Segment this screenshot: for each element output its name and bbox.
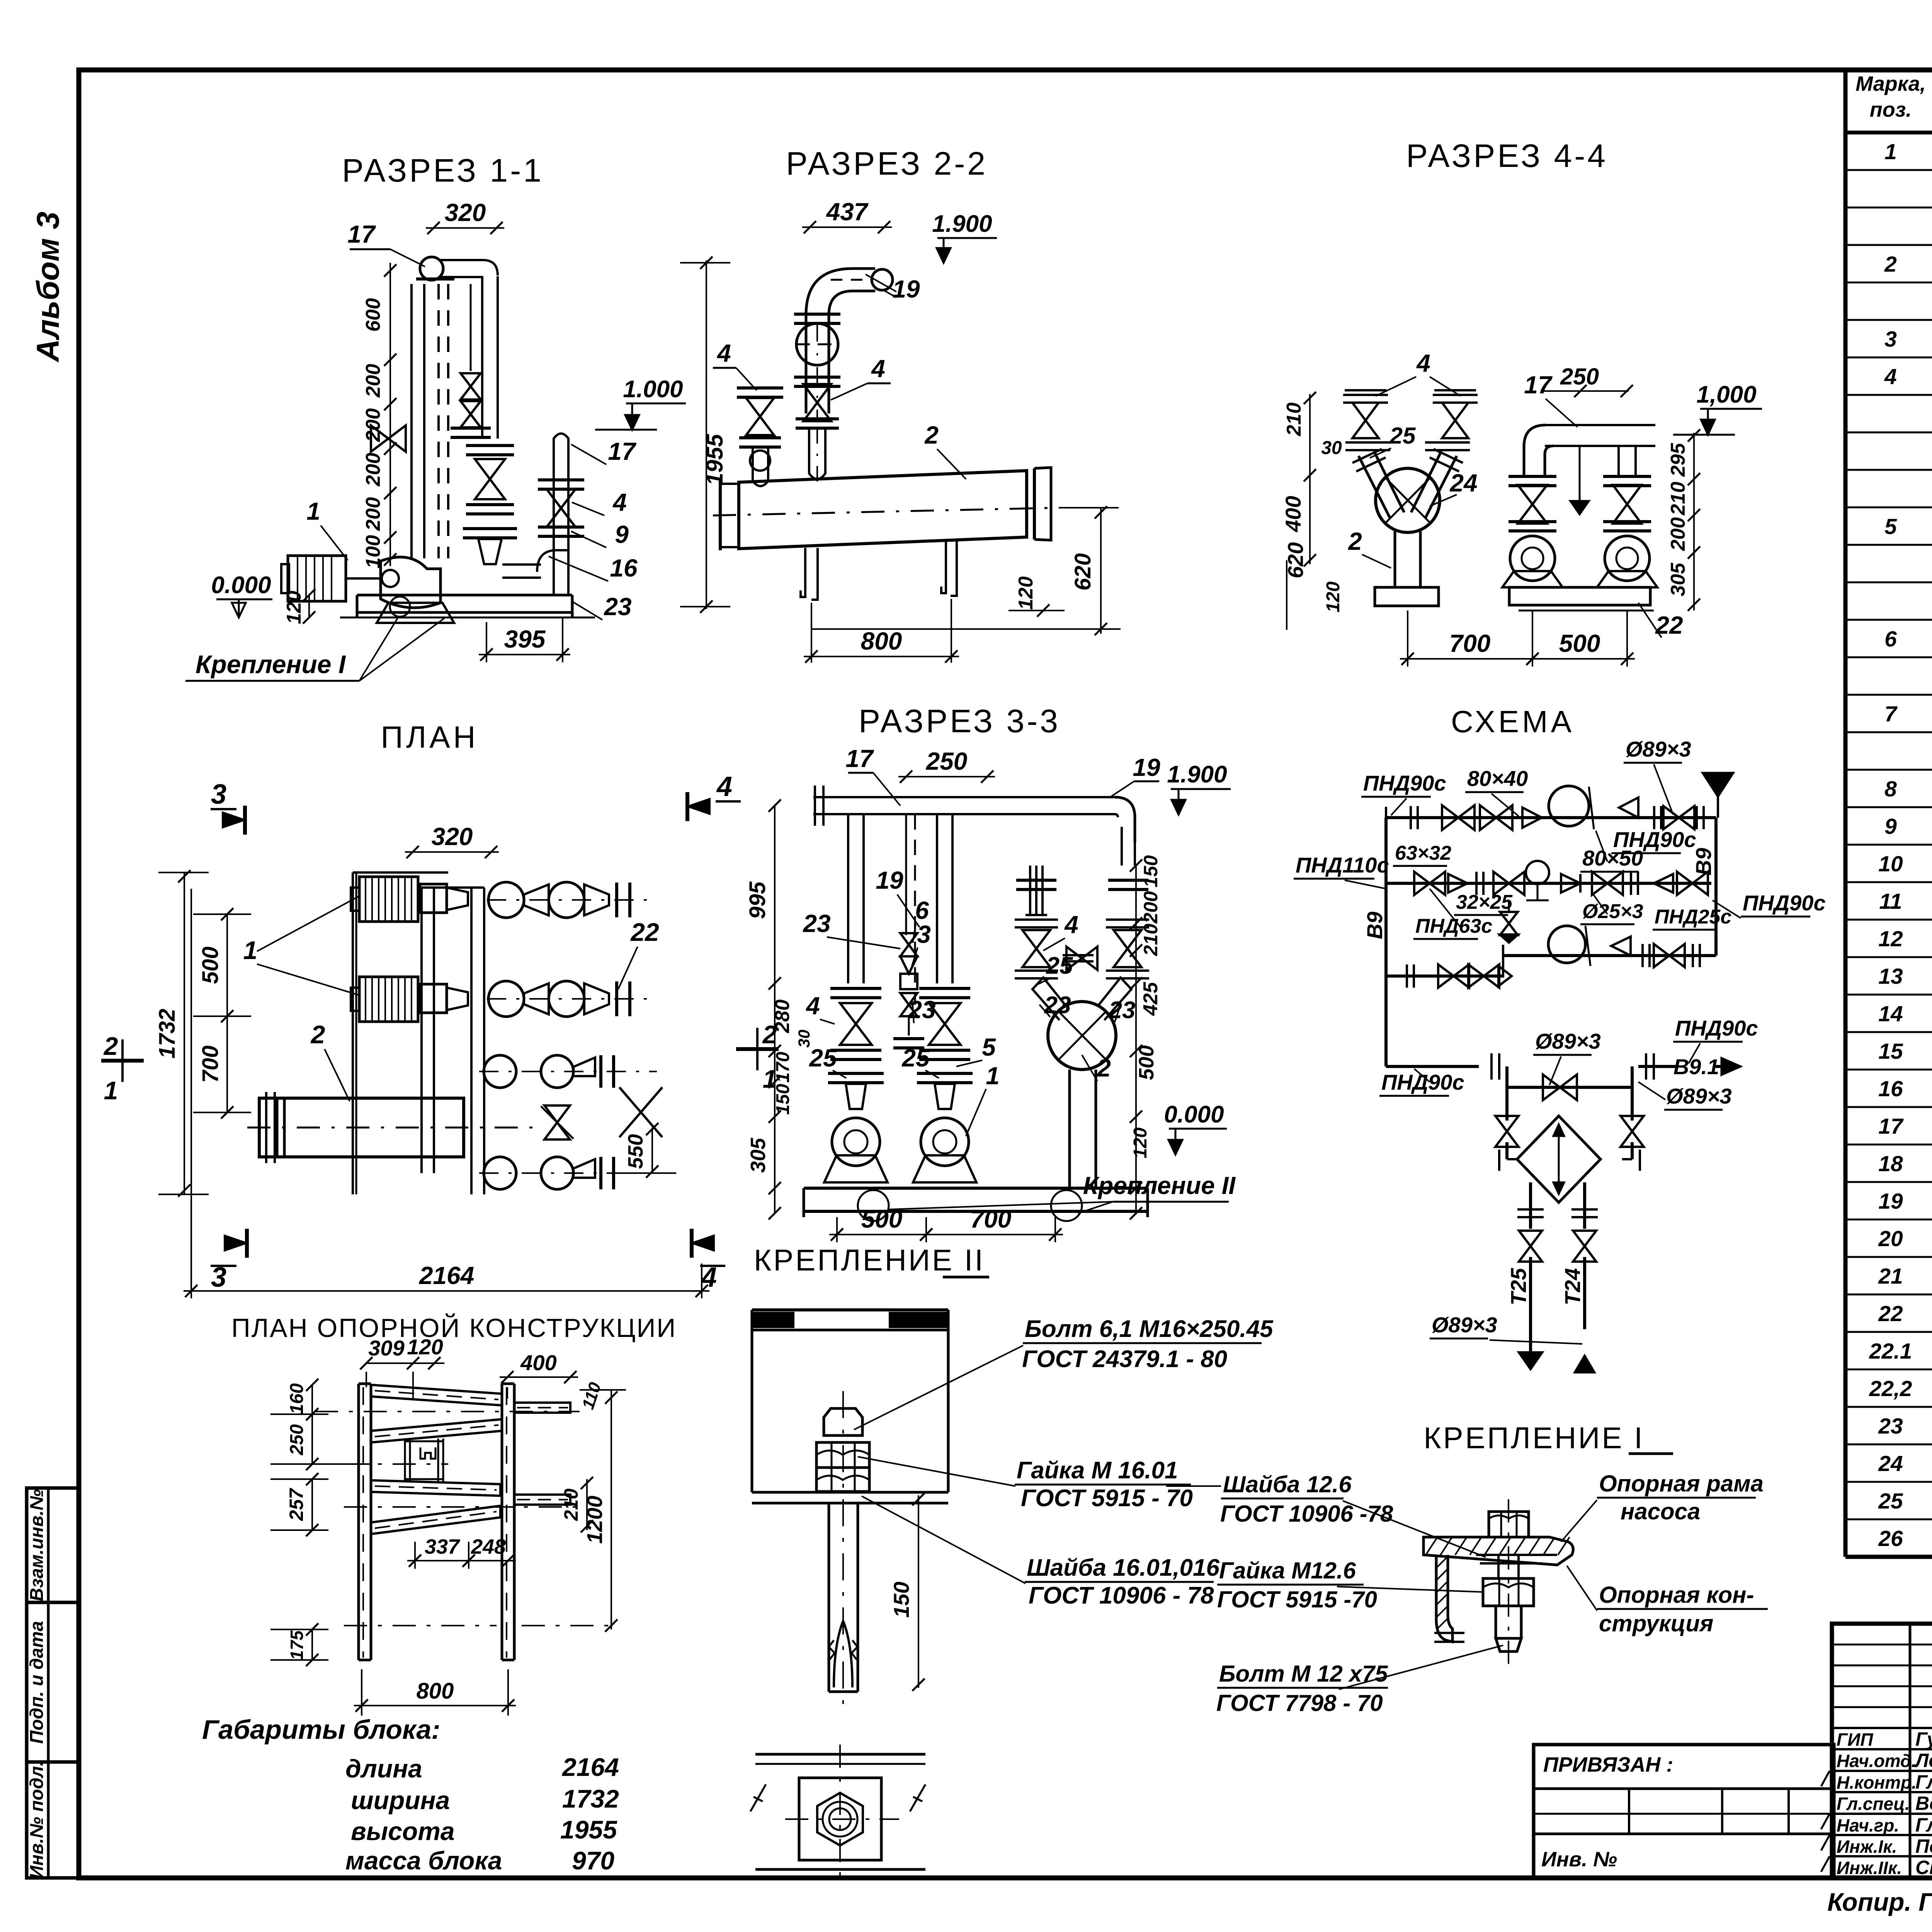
svg-text:РАЗРЕЗ 2-2: РАЗРЕЗ 2-2 (786, 145, 988, 182)
svg-text:1: 1 (306, 497, 320, 525)
svg-text:1.900: 1.900 (1167, 761, 1227, 788)
svg-text:1,000: 1,000 (1696, 381, 1756, 408)
svg-text:В9: В9 (1362, 912, 1387, 939)
svg-text:4: 4 (612, 488, 627, 516)
svg-text:150: 150 (889, 1582, 913, 1617)
svg-text:32×25: 32×25 (1456, 891, 1513, 913)
svg-text:1: 1 (986, 1062, 1000, 1090)
svg-text:500: 500 (1135, 1045, 1158, 1080)
svg-text:257: 257 (286, 1488, 307, 1521)
svg-text:ПРИВЯЗАН :: ПРИВЯЗАН : (1543, 1753, 1673, 1776)
left margin boxes (27, 1488, 79, 1602)
svg-text:3: 3 (1884, 327, 1897, 352)
pump unit P1 (288, 556, 346, 601)
svg-text:210: 210 (1283, 403, 1305, 437)
schema lower manifold (1386, 1065, 1479, 1068)
svg-text:425: 425 (1139, 982, 1162, 1016)
svg-text:В9: В9 (1691, 848, 1716, 876)
svg-text:Ø25×3: Ø25×3 (1582, 900, 1643, 923)
beam (752, 1308, 948, 1311)
svg-text:210: 210 (560, 1488, 582, 1521)
support dims (366, 1362, 444, 1364)
svg-text:17: 17 (1524, 371, 1553, 399)
support middle connector (404, 1439, 406, 1482)
section mark 2-1 right (736, 1047, 779, 1051)
svg-text:210: 210 (1140, 923, 1162, 956)
svg-text:25: 25 (901, 1044, 930, 1072)
svg-text:ПНД90с: ПНД90с (1743, 891, 1826, 915)
svg-text:620: 620 (1070, 553, 1095, 591)
svg-text:Опорная кон-: Опорная кон- (1599, 1582, 1754, 1608)
svg-text:5: 5 (1884, 514, 1897, 539)
svg-text:Гладикова: Гладикова (1915, 1771, 1932, 1793)
svg-text:Смирнова: Смирнова (1915, 1857, 1932, 1878)
svg-text:700: 700 (1449, 629, 1491, 657)
svg-text:1.000: 1.000 (623, 376, 683, 403)
svg-text:500: 500 (198, 947, 223, 984)
svg-text:25: 25 (809, 1044, 837, 1072)
svg-text:120: 120 (1323, 582, 1344, 612)
svg-text:600: 600 (362, 298, 384, 332)
plan pump unit (359, 877, 418, 922)
svg-text:15: 15 (1878, 1039, 1903, 1064)
s3 risers (847, 814, 849, 983)
s3 tank (1048, 1002, 1116, 1070)
svg-text:19: 19 (1878, 1189, 1903, 1214)
svg-text:3: 3 (211, 779, 226, 810)
svg-text:РАЗРЕЗ 3-3: РАЗРЕЗ 3-3 (859, 703, 1060, 739)
svg-text:2: 2 (1097, 1054, 1111, 1082)
svg-text:1732: 1732 (562, 1784, 619, 1813)
svg-text:23: 23 (803, 910, 830, 937)
svg-text:Болт 6,1 М16×250.45: Болт 6,1 М16×250.45 (1025, 1316, 1274, 1342)
heat exchanger vessel (739, 471, 1027, 549)
svg-text:995: 995 (745, 881, 770, 919)
svg-text:20: 20 (1878, 1226, 1903, 1251)
svg-text:7: 7 (1884, 702, 1898, 726)
svg-text:1200: 1200 (582, 1496, 607, 1544)
svg-text:2164: 2164 (419, 1262, 474, 1289)
svg-text:25: 25 (1878, 1489, 1903, 1514)
svg-text:620: 620 (1283, 542, 1308, 578)
section2 legs (804, 548, 806, 585)
svg-text:160: 160 (287, 1383, 307, 1414)
support columns (357, 1384, 360, 1660)
kr1 bolt (1489, 1512, 1529, 1537)
svg-text:ПНД110с: ПНД110с (1296, 853, 1389, 877)
svg-text:Гл.спец.: Гл.спец. (1837, 1794, 1910, 1814)
svg-text:248: 248 (471, 1535, 506, 1558)
svg-text:4: 4 (1884, 364, 1897, 389)
svg-text:320: 320 (432, 823, 473, 850)
svg-text:63×32: 63×32 (1395, 842, 1451, 864)
svg-text:500: 500 (861, 1205, 903, 1233)
svg-text:24: 24 (1449, 469, 1477, 497)
svg-text:0.000: 0.000 (211, 572, 271, 599)
svg-text:Шайба 12.6: Шайба 12.6 (1223, 1471, 1352, 1497)
svg-text:Шайба 16.01,016: Шайба 16.01,016 (1027, 1554, 1219, 1581)
svg-text:320: 320 (445, 199, 486, 226)
s4 pipe arch (1545, 424, 1655, 426)
svg-text:305: 305 (1667, 563, 1689, 597)
svg-text:ПЛАН: ПЛАН (381, 720, 478, 754)
pump (1510, 536, 1555, 581)
svg-text:ГОСТ 7798 - 70: ГОСТ 7798 - 70 (1216, 1690, 1383, 1716)
svg-text:23: 23 (604, 593, 631, 621)
plan valve train (488, 882, 524, 918)
svg-text:0.000: 0.000 (1164, 1101, 1224, 1128)
svg-text:Т25: Т25 (1506, 1268, 1531, 1305)
section mark 4 bottom (690, 1229, 694, 1258)
svg-text:ГОСТ 24379.1 - 80: ГОСТ 24379.1 - 80 (1022, 1346, 1227, 1372)
svg-text:В9.1: В9.1 (1673, 1054, 1719, 1079)
support beams (371, 1385, 502, 1405)
svg-text:250: 250 (1560, 364, 1599, 389)
svg-text:80×40: 80×40 (1467, 766, 1528, 791)
svg-text:150: 150 (1140, 855, 1162, 888)
svg-text:высота: высота (351, 1817, 455, 1845)
svg-text:19: 19 (1133, 753, 1160, 781)
svg-text:337: 337 (425, 1535, 461, 1558)
svg-text:1: 1 (104, 1076, 118, 1105)
svg-text:16: 16 (610, 554, 638, 582)
svg-text:4: 4 (716, 771, 732, 802)
svg-text:9: 9 (1884, 814, 1897, 839)
support stubs (514, 1403, 570, 1413)
svg-text:Крепление II: Крепление II (1083, 1172, 1236, 1199)
svg-text:120: 120 (407, 1335, 443, 1359)
svg-text:12: 12 (1878, 927, 1903, 951)
svg-text:11: 11 (1879, 889, 1902, 914)
svg-text:Подп. и дата: Подп. и дата (27, 1621, 47, 1744)
kr1 bracket (1436, 1555, 1452, 1642)
svg-text:4: 4 (871, 355, 885, 383)
section2 left valve (737, 386, 783, 389)
svg-text:400: 400 (520, 1350, 556, 1375)
svg-text:5: 5 (982, 1033, 996, 1061)
schema top right arrowdrop (1702, 773, 1733, 797)
svg-text:200: 200 (362, 364, 384, 398)
svg-text:1: 1 (243, 936, 258, 964)
svg-text:400: 400 (1281, 496, 1305, 532)
svg-text:170: 170 (773, 1052, 793, 1083)
svg-text:14: 14 (1878, 1002, 1903, 1026)
svg-text:437: 437 (826, 198, 869, 226)
bolt head and nuts (824, 1408, 862, 1435)
svg-text:1.900: 1.900 (932, 211, 992, 237)
svg-text:395: 395 (504, 625, 546, 653)
svg-text:80×50: 80×50 (1582, 846, 1643, 870)
svg-text:Нач.отд.: Нач.отд. (1837, 1751, 1916, 1771)
svg-text:Крепление I: Крепление I (196, 650, 346, 679)
schema line4 (1386, 975, 1503, 978)
privyazan block (1534, 1745, 1834, 1878)
svg-text:23: 23 (1109, 997, 1136, 1024)
svg-text:Ø89×3: Ø89×3 (1535, 1029, 1601, 1053)
svg-text:6: 6 (1884, 627, 1897, 651)
svg-text:Нач.гр.: Нач.гр. (1837, 1815, 1899, 1835)
plan lower riser pair (484, 1157, 516, 1189)
svg-text:Инж.IIк.: Инж.IIк. (1837, 1858, 1902, 1878)
svg-text:ПНД90с: ПНД90с (1675, 1016, 1758, 1040)
svg-text:4: 4 (716, 339, 731, 367)
svg-text:800: 800 (861, 627, 902, 655)
anchor rod (828, 1503, 830, 1692)
section mark 3 bottom (245, 1229, 249, 1258)
svg-text:120: 120 (1015, 577, 1037, 610)
section1 top pipe (420, 257, 443, 280)
plan heat exchanger (259, 1098, 464, 1157)
svg-text:200: 200 (362, 453, 384, 487)
schema line2 (1384, 818, 1388, 1066)
s3 pump (921, 1118, 969, 1166)
schema filter (1505, 1087, 1509, 1121)
svg-text:26: 26 (1878, 1526, 1903, 1551)
svg-text:РАЗРЕЗ 4-4: РАЗРЕЗ 4-4 (1406, 138, 1608, 174)
schema top line (1386, 816, 1716, 819)
svg-text:16: 16 (1878, 1077, 1903, 1101)
svg-text:Гладикова: Гладикова (1915, 1814, 1932, 1836)
svg-text:Гайка М12.6: Гайка М12.6 (1219, 1558, 1356, 1583)
svg-text:КРЕПЛЕНИЕ I: КРЕПЛЕНИЕ I (1423, 1421, 1645, 1455)
svg-text:ПЛАН ОПОРНОЙ КОНСТРУКЦИИ: ПЛАН ОПОРНОЙ КОНСТРУКЦИИ (231, 1313, 677, 1343)
section mark 4 top (685, 792, 689, 821)
plan pump unit (359, 977, 418, 1022)
svg-text:ПНД90с: ПНД90с (1381, 1070, 1464, 1094)
svg-text:800: 800 (417, 1679, 454, 1704)
title block (1832, 1624, 1932, 1878)
svg-text:СХЕМА: СХЕМА (1451, 704, 1575, 739)
svg-text:Н.контр.: Н.контр. (1837, 1772, 1917, 1793)
svg-text:Гайка М 16.01: Гайка М 16.01 (1017, 1457, 1178, 1484)
svg-text:17: 17 (1878, 1114, 1904, 1139)
section1 mid valves (470, 284, 472, 371)
section mark 3 top (243, 806, 247, 835)
bolt plan (755, 1753, 925, 1756)
svg-text:13: 13 (1878, 964, 1903, 989)
svg-text:1955: 1955 (560, 1815, 617, 1844)
svg-text:ПНД90с: ПНД90с (1363, 771, 1446, 795)
svg-text:4: 4 (805, 992, 820, 1020)
section1 right riser (553, 460, 555, 594)
svg-text:2: 2 (310, 1020, 325, 1049)
svg-text:насоса: насоса (1621, 1498, 1700, 1524)
svg-text:РАЗРЕЗ 1-1: РАЗРЕЗ 1-1 (342, 152, 544, 189)
svg-text:Волкова: Волкова (1915, 1793, 1932, 1814)
svg-text:550: 550 (624, 1134, 647, 1169)
svg-text:Инв. №: Инв. № (1541, 1848, 1617, 1871)
section1 column (416, 277, 454, 281)
svg-text:305: 305 (747, 1138, 770, 1173)
svg-text:10: 10 (1878, 852, 1903, 876)
svg-text:1955: 1955 (702, 434, 728, 486)
svg-text:700: 700 (970, 1205, 1012, 1233)
svg-text:2164: 2164 (561, 1753, 619, 1781)
svg-text:длина: длина (345, 1754, 422, 1783)
svg-text:700: 700 (198, 1046, 223, 1083)
svg-text:22,2: 22,2 (1869, 1376, 1912, 1401)
schema line3 (1503, 954, 1716, 957)
svg-text:120: 120 (283, 591, 305, 624)
plan frame edge (352, 872, 354, 1194)
svg-text:ГОСТ 10906 -78: ГОСТ 10906 -78 (1220, 1501, 1393, 1527)
svg-text:22: 22 (630, 918, 659, 946)
svg-text:120: 120 (1130, 1128, 1151, 1158)
svg-text:17: 17 (845, 745, 874, 772)
svg-text:Взам.инв.№: Взам.инв.№ (27, 1489, 47, 1601)
svg-text:19: 19 (876, 866, 903, 894)
section2 riser (806, 269, 875, 315)
svg-text:Лепендин: Лепендин (1914, 1750, 1932, 1771)
section1 valve stack (466, 444, 514, 447)
svg-text:3: 3 (917, 920, 931, 948)
svg-text:Ø89×3: Ø89×3 (1666, 1084, 1732, 1108)
svg-text:250: 250 (926, 747, 968, 775)
plan diag valve (544, 1105, 570, 1122)
svg-text:4: 4 (1416, 349, 1430, 377)
s3 pump (832, 1118, 880, 1166)
svg-text:Альбом 3: Альбом 3 (31, 212, 66, 363)
svg-text:8: 8 (1884, 777, 1897, 801)
plan dims (405, 851, 499, 853)
svg-text:22: 22 (1878, 1301, 1903, 1326)
svg-text:18: 18 (1878, 1151, 1903, 1176)
svg-text:200: 200 (362, 408, 384, 442)
svg-text:200: 200 (1667, 517, 1689, 551)
svg-text:2: 2 (1884, 252, 1897, 277)
section1 base (357, 594, 572, 597)
svg-text:9: 9 (615, 520, 629, 548)
ejector assembly (1376, 468, 1440, 532)
svg-text:280: 280 (771, 1000, 794, 1034)
svg-text:КРЕПЛЕНИЕ II: КРЕПЛЕНИЕ II (754, 1243, 985, 1277)
svg-text:ГОСТ 10906 - 78: ГОСТ 10906 - 78 (1029, 1582, 1214, 1609)
svg-text:Ø89×3: Ø89×3 (1626, 737, 1691, 761)
svg-text:295: 295 (1667, 443, 1689, 477)
svg-text:17: 17 (608, 437, 637, 465)
svg-text:2: 2 (924, 421, 939, 449)
svg-text:200: 200 (1140, 891, 1162, 924)
plan manifold pipes (420, 888, 423, 1173)
svg-text:17: 17 (347, 220, 376, 248)
dim 1955 (706, 260, 707, 609)
svg-text:Копир. Ганкова: Копир. Ганкова (1827, 1888, 1932, 1916)
svg-text:Габариты блока:: Габариты блока: (202, 1714, 440, 1745)
pump (1605, 536, 1650, 581)
svg-text:30: 30 (795, 1030, 813, 1048)
svg-text:ширина: ширина (351, 1786, 450, 1815)
svg-text:175: 175 (287, 1630, 307, 1660)
svg-text:150: 150 (773, 1084, 793, 1115)
svg-text:210: 210 (1667, 482, 1689, 516)
svg-text:Т24: Т24 (1560, 1268, 1585, 1306)
svg-text:1732: 1732 (155, 1009, 180, 1058)
s3 base (804, 1187, 1148, 1190)
section1 dim chain (389, 263, 391, 566)
svg-text:23: 23 (908, 996, 935, 1024)
svg-text:ГОСТ 5915 -70: ГОСТ 5915 -70 (1217, 1587, 1377, 1612)
svg-text:970: 970 (572, 1846, 614, 1875)
svg-text:25: 25 (1389, 423, 1416, 449)
svg-text:30: 30 (1321, 438, 1342, 458)
svg-text:масса блока: масса блока (345, 1846, 502, 1875)
section mark 2-1 left (101, 1059, 144, 1063)
kr1 plate (1423, 1537, 1573, 1565)
plan lower riser pair (484, 1055, 516, 1088)
svg-text:21: 21 (1878, 1264, 1903, 1289)
svg-text:Гусева: Гусева (1915, 1728, 1932, 1750)
svg-text:Поздеева: Поздеева (1915, 1835, 1932, 1857)
svg-text:250: 250 (287, 1424, 307, 1456)
svg-text:2: 2 (103, 1032, 118, 1060)
svg-text:309: 309 (368, 1336, 404, 1360)
svg-text:4: 4 (1064, 911, 1078, 939)
s3 top pipe (813, 796, 1115, 798)
svg-text:поз.: поз. (1870, 98, 1912, 121)
svg-text:200: 200 (362, 497, 384, 531)
svg-text:ГИП: ГИП (1837, 1730, 1873, 1750)
svg-text:500: 500 (1559, 629, 1600, 657)
svg-text:Ø89×3: Ø89×3 (1432, 1313, 1497, 1337)
svg-text:ГОСТ 5915 - 70: ГОСТ 5915 - 70 (1021, 1485, 1193, 1512)
parts table (1844, 70, 1848, 1557)
svg-text:ПНД25с: ПНД25с (1655, 906, 1731, 928)
svg-text:Инв.№ подл.: Инв.№ подл. (27, 1761, 47, 1879)
svg-text:1: 1 (1884, 139, 1897, 164)
svg-text:струкция: струкция (1599, 1611, 1713, 1636)
svg-text:22.1: 22.1 (1869, 1339, 1912, 1364)
svg-text:Опорная рама: Опорная рама (1599, 1471, 1764, 1497)
svg-text:2: 2 (1348, 527, 1362, 555)
svg-text:25: 25 (1046, 952, 1073, 979)
svg-text:24: 24 (1878, 1451, 1903, 1476)
svg-text:19: 19 (892, 275, 920, 303)
svg-text:Инж.Iк.: Инж.Iк. (1837, 1837, 1897, 1857)
plan valve train (488, 981, 524, 1017)
svg-text:23: 23 (1878, 1414, 1903, 1439)
svg-text:Марка,: Марка, (1855, 72, 1926, 95)
